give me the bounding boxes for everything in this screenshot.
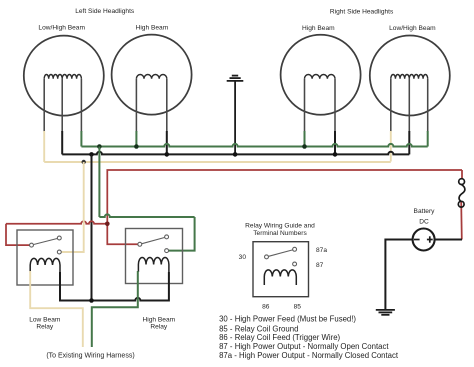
wire: red feed to high beam relay 30: [107, 224, 138, 245]
wire: L3 right lead black: [334, 131, 336, 154]
wire: L3 left lead green: [304, 131, 306, 147]
wire: red power feed horizontal from fuse: [107, 170, 462, 224]
svg-text:87a: 87a: [316, 247, 327, 254]
label: terminal legend: [219, 315, 399, 360]
wire: tan drop from bus to low relay 87: [61, 162, 83, 252]
svg-text:Low/High Beam: Low/High Beam: [38, 24, 85, 31]
svg-text:Relay Wiring Guide and: Relay Wiring Guide and: [245, 222, 315, 229]
wire: red feed to low beam relay 30: [6, 221, 107, 224]
relay K1 switch: [30, 236, 62, 254]
node: red feed T junction: [105, 222, 110, 227]
wire: black ground bus: [62, 152, 409, 155]
wire: L1 left lead tan to low-beam bus: [43, 131, 45, 162]
relay guide coil: [264, 270, 296, 285]
svg-text:87a - High Power Output - Norm: 87a - High Power Output - Normally Close…: [219, 351, 399, 360]
wire: red from fuse top to feed line: [461, 170, 463, 180]
ground (headlight ground, top center): [227, 76, 244, 155]
svg-text:Terminal Numbers: Terminal Numbers: [253, 230, 307, 237]
battery BT1: [413, 229, 435, 251]
svg-text:Low/High Beam: Low/High Beam: [389, 25, 436, 32]
relay K1 Low Beam Relay box: [17, 230, 73, 285]
node: black bus junction at L2 right lead: [165, 152, 170, 157]
svg-text:Relay: Relay: [150, 324, 168, 331]
wire: L4 left lead tan: [390, 131, 392, 162]
fuse F1 (circuit breaker symbol): [458, 179, 465, 207]
svg-text:High Beam: High Beam: [136, 24, 169, 31]
wire: lamp leads gray segments: [44, 79, 428, 132]
node: green bus junction at x=99: [97, 144, 102, 149]
svg-text:High Beam: High Beam: [302, 25, 335, 32]
svg-text:85 - Relay Coil Ground: 85 - Relay Coil Ground: [219, 324, 298, 333]
svg-text:High Beam: High Beam: [142, 316, 175, 323]
svg-text:(To Existing Wiring Harness): (To Existing Wiring Harness): [46, 352, 134, 359]
wire: L2 left lead green: [135, 131, 137, 147]
relay K2 switch: [138, 235, 169, 253]
wire: L2 right lead black crossing green bus: [166, 131, 168, 154]
svg-text:Battery: Battery: [414, 208, 436, 215]
wire: battery + horizontal: [435, 239, 462, 241]
lamp L2 High Beam left: [112, 35, 192, 115]
relay K2 High Beam Relay box: [126, 229, 183, 284]
node: black bus junction at ground: [233, 152, 238, 157]
node: green bus junction at L3 left lead: [302, 144, 307, 149]
svg-text:Low Beam: Low Beam: [29, 316, 61, 323]
wire: L4 right lead green: [427, 131, 429, 147]
relay K1 coil: [30, 258, 60, 272]
wire: tan low-beam trigger to harness: [30, 271, 83, 347]
wire: green high-beam bus: [81, 144, 427, 147]
svg-text:Left Side Headlights: Left Side Headlights: [75, 8, 135, 15]
node: green bus junction at L2 left lead: [134, 144, 139, 149]
wire: L4 middle lead black: [408, 131, 410, 154]
wire: green horizontal y217 with hop over red: [99, 214, 194, 217]
svg-text:30 - High Power Feed (Must be: 30 - High Power Feed (Must be Fused!): [219, 315, 356, 324]
wire: red fuse bottom to battery +: [460, 202, 463, 240]
svg-text:30: 30: [239, 254, 247, 261]
lamp L3 High Beam right: [281, 35, 361, 115]
wire: L1 middle lead black to ground bus: [61, 131, 63, 154]
svg-text:Right Side Headlights: Right Side Headlights: [330, 9, 394, 16]
node: black bus junction at x=91.5: [89, 152, 94, 157]
svg-text:87: 87: [316, 262, 324, 269]
svg-text:87 - High Power Output - Norma: 87 - High Power Output - Normally Open C…: [219, 342, 389, 351]
svg-text:Relay: Relay: [36, 324, 54, 331]
ground (battery ground): [376, 310, 395, 315]
lamp L1 Low/High Beam left: [24, 36, 104, 116]
node: bottom bus junction: [89, 298, 94, 303]
svg-text:85: 85: [294, 304, 302, 311]
wire: tan low-beam bus: [44, 161, 391, 163]
svg-text:DC: DC: [419, 219, 429, 226]
wire: black coil-ground bus at bottom: [60, 272, 169, 301]
wire: L1 right lead green to high-beam bus: [80, 131, 82, 147]
wire: black ground drop x=91.5: [91, 154, 93, 300]
node: black bus junction at L3 right lead: [333, 152, 338, 157]
relay guide switch: [265, 247, 297, 266]
node: tan bus junction at x=83.7: [82, 160, 86, 164]
wire: green high-beam trigger to harness: [92, 271, 138, 347]
wire: green drop from bus to y217: [98, 147, 100, 218]
relay K2 coil: [138, 257, 169, 272]
lamp L4 Low/High Beam right: [370, 36, 450, 116]
svg-text:86: 86: [262, 304, 270, 311]
svg-text:86 - Relay Coil Feed (Trigger: 86 - Relay Coil Feed (Trigger Wire): [219, 333, 340, 342]
wire: battery - to ground: [385, 240, 412, 310]
relay guide box: [253, 242, 309, 297]
wire: green down to high relay 87: [169, 217, 195, 251]
